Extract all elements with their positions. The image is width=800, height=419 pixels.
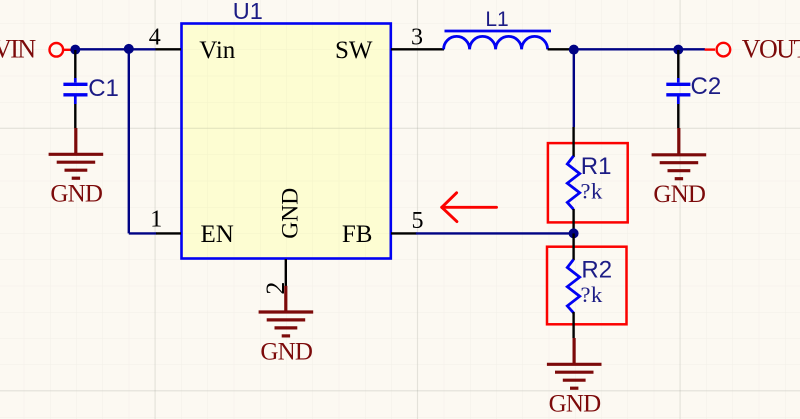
power port VOUT stub <box>705 48 715 50</box>
svg-text:R1: R1 <box>581 153 612 180</box>
inductor L1 humps <box>444 36 548 49</box>
resistor R2 zigzag <box>567 260 579 313</box>
wire node C to node D <box>574 48 679 50</box>
op-amp U1 border <box>182 24 391 259</box>
wire node A to node B <box>75 48 129 50</box>
svg-text:FB: FB <box>342 221 373 248</box>
svg-text:U1: U1 <box>233 0 263 24</box>
pin 1 stub <box>156 232 181 234</box>
capacitor C2 bottom stub <box>677 97 680 105</box>
svg-text:GND: GND <box>278 188 304 239</box>
power port VIN terminal circle <box>50 43 64 57</box>
capacitor C1 top stub <box>74 78 77 83</box>
svg-text:GND: GND <box>50 181 103 208</box>
ground GND1 symbol <box>49 128 104 178</box>
capacitor C2 plates <box>666 84 690 95</box>
capacitor C1 top pin <box>74 50 76 79</box>
svg-text:3: 3 <box>411 25 423 51</box>
node D junction dot <box>673 45 683 55</box>
svg-text:C2: C2 <box>691 73 722 100</box>
ground GND3 symbol <box>547 338 602 388</box>
svg-text:VIN: VIN <box>0 35 36 64</box>
power port VIN stub <box>63 49 72 51</box>
svg-text:GND: GND <box>549 390 602 417</box>
capacitor C2 top pin <box>677 50 679 79</box>
pin 5 stub <box>391 232 417 234</box>
svg-text:1: 1 <box>150 207 162 233</box>
svg-text:SW: SW <box>335 37 373 64</box>
pin 3 stub <box>391 48 417 50</box>
node E junction dot <box>569 228 579 238</box>
ground GND2 symbol <box>652 128 707 179</box>
pin 5 wire FB to node E <box>416 232 574 234</box>
node C junction dot <box>569 45 579 55</box>
capacitor C1 plates <box>63 84 87 95</box>
svg-text:?k: ?k <box>581 178 603 203</box>
wire VIN to junction A <box>71 48 76 50</box>
ground GND4 symbol <box>259 286 314 336</box>
wire node B down to EN <box>128 49 130 233</box>
svg-text:C1: C1 <box>88 75 119 102</box>
wire node C down to R1 <box>573 49 575 127</box>
op-amp U1 body fill <box>180 22 392 260</box>
inductor L1 left pin <box>417 48 445 50</box>
annotation arrow <box>442 193 497 222</box>
inductor L1 overline <box>445 30 552 33</box>
pin 4 stub <box>156 48 182 50</box>
resistor R1 zigzag <box>567 156 579 209</box>
svg-text:?k: ?k <box>581 282 603 307</box>
resistor R2 top pin <box>572 233 574 260</box>
resistor R2 box <box>547 247 627 325</box>
svg-text:GND: GND <box>260 338 313 365</box>
capacitor C1 bottom pin <box>74 104 76 128</box>
capacitor C1 bottom stub <box>74 97 77 105</box>
capacitor C2 top stub <box>677 78 680 83</box>
svg-text:R2: R2 <box>581 257 612 284</box>
svg-text:Vin: Vin <box>199 37 235 64</box>
resistor R2 bottom pin <box>572 312 574 338</box>
svg-text:L1: L1 <box>485 8 508 31</box>
wire node B to pin 4 <box>129 48 156 50</box>
capacitor C2 bottom pin <box>677 104 679 128</box>
resistor R1 box <box>548 143 628 222</box>
svg-text:4: 4 <box>149 25 161 51</box>
svg-text:5: 5 <box>412 208 424 234</box>
power port VOUT terminal circle <box>717 43 731 57</box>
node B junction dot <box>124 44 134 54</box>
wire node D to VOUT <box>678 48 705 50</box>
inductor L1 right pin <box>548 48 574 50</box>
resistor R1 bottom pin <box>572 209 574 233</box>
resistor R1 top pin <box>572 127 574 157</box>
node A junction dot <box>70 45 80 55</box>
svg-text:GND: GND <box>653 181 706 208</box>
wire EN horizontal <box>129 232 157 234</box>
svg-text:EN: EN <box>201 221 234 248</box>
pin 2 stub <box>285 259 287 286</box>
svg-text:VOUT: VOUT <box>742 35 800 64</box>
